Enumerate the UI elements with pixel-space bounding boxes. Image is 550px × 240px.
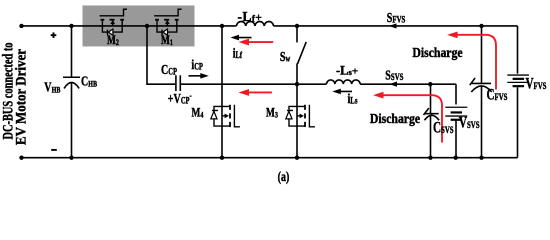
svg-text:CFVS: CFVS [487,86,508,103]
svg-text:CHB: CHB [81,73,97,89]
svg-text:VFVS: VFVS [526,75,547,92]
svg-text:(a): (a) [278,168,290,184]
svg-text:iLf: iLf [233,45,243,61]
svg-text:VHB: VHB [44,79,60,95]
svg-text:-Lf+: -Lf+ [238,9,263,24]
svg-text:Sw: Sw [280,49,291,65]
svg-text:SSVS: SSVS [385,67,403,83]
svg-text:-Ls+: -Ls+ [336,64,358,78]
svg-text:M3: M3 [266,106,278,120]
svg-text:CCP: CCP [161,61,177,77]
svg-text:Discharge: Discharge [370,111,421,126]
svg-text:iCP: iCP [191,56,203,72]
svg-text:Discharge: Discharge [412,45,463,60]
svg-text:VSVS: VSVS [459,114,480,131]
svg-text:SFVS: SFVS [387,10,406,26]
svg-text:CSVS: CSVS [433,119,454,136]
svg-text:M4: M4 [192,106,204,120]
svg-text:iLs: iLs [348,90,359,106]
svg-text:EV Motor Driver: EV Motor Driver [14,49,30,145]
svg-text:+VCP-: +VCP- [168,90,192,106]
